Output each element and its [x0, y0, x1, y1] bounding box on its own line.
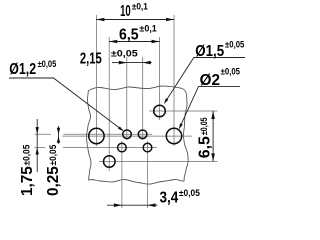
svg-text:10: 10	[120, 2, 131, 20]
svg-text:±0,05: ±0,05	[47, 145, 58, 166]
svg-text:1,75: 1,75	[19, 166, 36, 196]
svg-text:2,15: 2,15	[80, 50, 102, 67]
svg-text:±0,1: ±0,1	[139, 23, 156, 33]
svg-text:Ø1,2: Ø1,2	[9, 60, 36, 78]
svg-text:Ø1,5: Ø1,5	[195, 43, 224, 60]
svg-text:±0,05: ±0,05	[179, 188, 200, 199]
svg-text:±0,05: ±0,05	[198, 117, 209, 135]
svg-text:6,5: 6,5	[119, 27, 138, 44]
svg-text:±0,05: ±0,05	[221, 66, 241, 77]
svg-text:Ø2: Ø2	[200, 72, 220, 89]
svg-text:0,25: 0,25	[45, 166, 62, 196]
svg-text:±0,05: ±0,05	[111, 49, 138, 59]
svg-text:6,5: 6,5	[196, 136, 213, 158]
svg-text:3,4: 3,4	[159, 190, 179, 207]
svg-text:±0,05: ±0,05	[21, 145, 32, 166]
svg-text:±0,05: ±0,05	[38, 58, 57, 69]
svg-text:±0,1: ±0,1	[132, 1, 148, 12]
svg-text:±0,05: ±0,05	[225, 39, 244, 50]
